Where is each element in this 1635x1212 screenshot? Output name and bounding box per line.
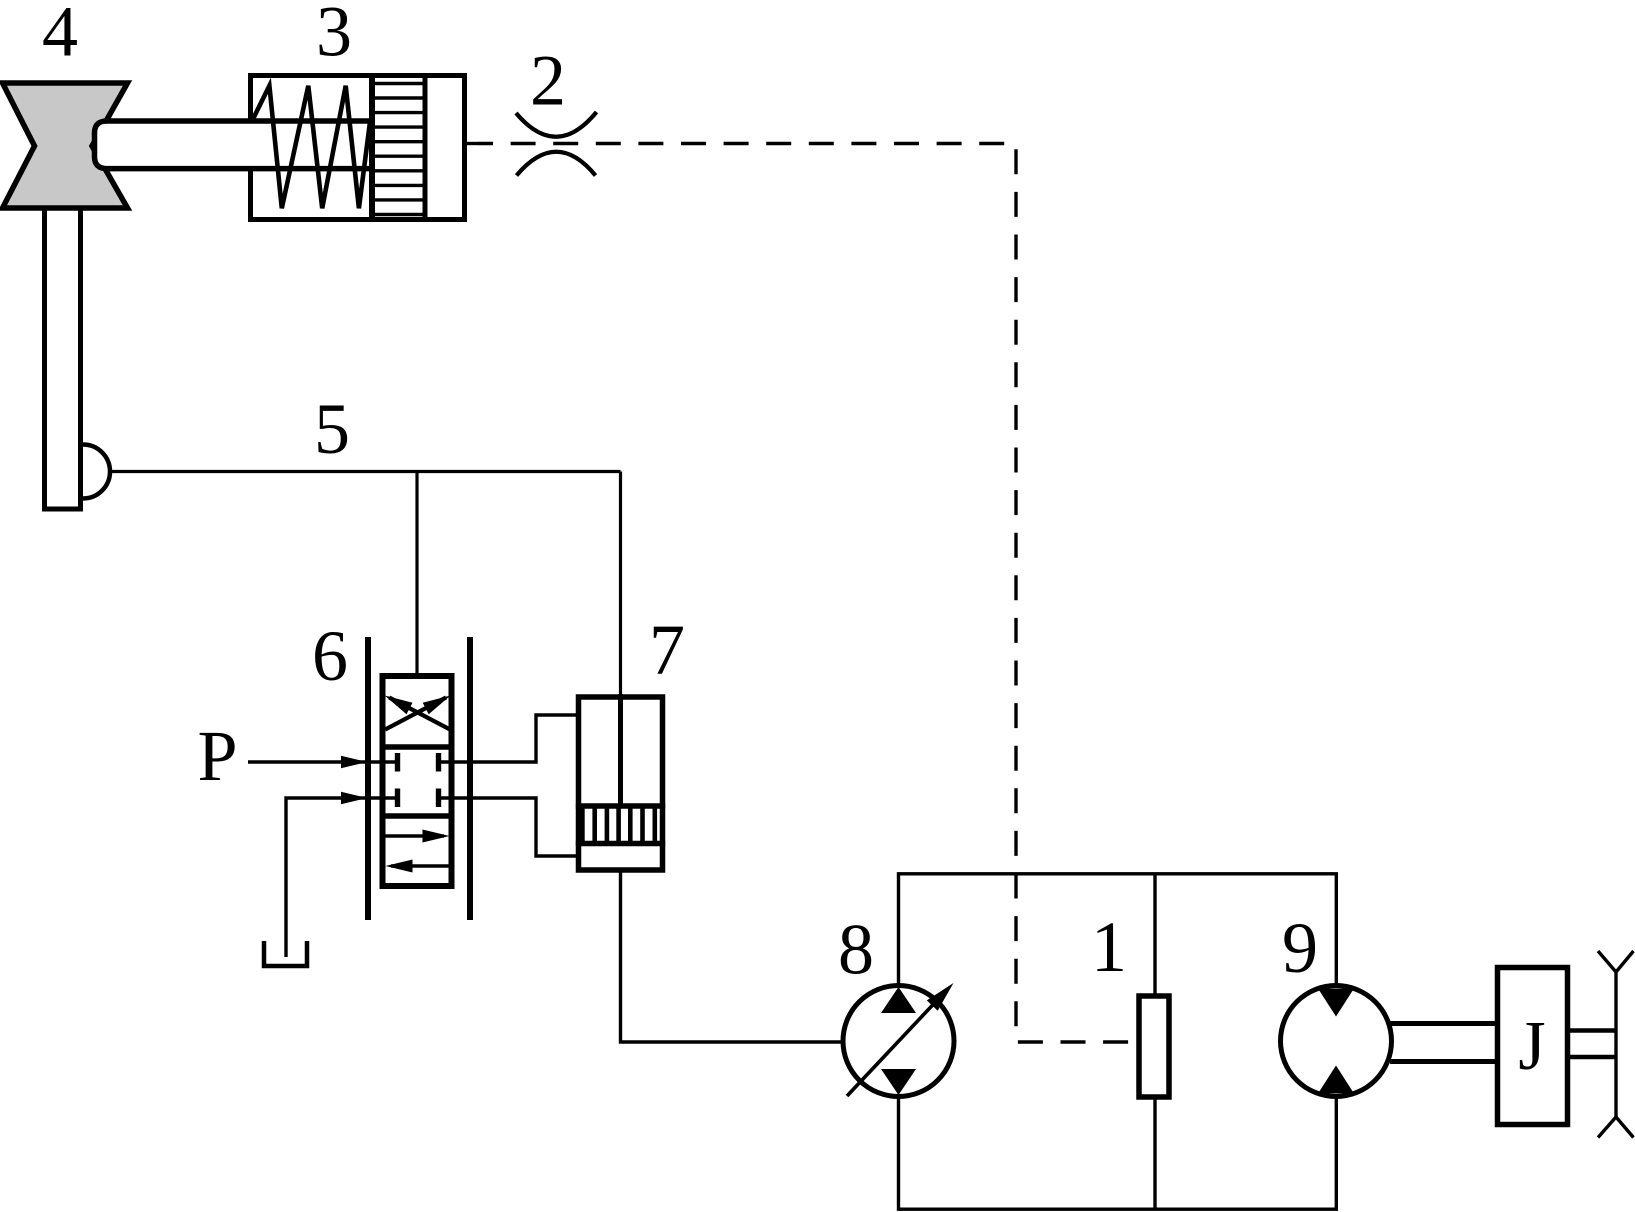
svg-text:J: J [1518,1008,1545,1085]
valve 6 crossed-arrow cell [385,696,451,730]
hydrostatic loop [899,874,1337,1209]
cylinder 7 lower rod / wire down to pump 8 [621,872,844,1042]
spring in 3 [252,86,370,209]
svg-text:4: 4 [42,0,78,72]
actuator 3 hatch (piston) [372,84,425,215]
tank return line with arrow [286,792,398,957]
motor 9 [1281,986,1392,1097]
svg-text:9: 9 [1282,908,1318,988]
cam 4 (grey) [3,83,128,208]
piston rod from 3 to cam 4 [95,121,373,169]
pivot follower semicircle on rod [83,445,110,499]
actuator 3 divider left (piston face) [369,76,375,220]
loop middle branch wire [1153,874,1156,1209]
valve 6 blocked-port bars (centre position) [398,753,439,807]
svg-text:5: 5 [314,389,350,469]
servo valve 6 right rail [467,637,473,920]
valve 6 flow arrows cell [386,830,450,873]
orifice 2 lower arc [517,152,596,176]
tank symbol [264,941,307,966]
shaft motor 9 to load J [1390,1024,1496,1062]
feedback link 5 (horizontal) [110,470,621,473]
wire valve B-port to cylinder bottom [439,798,579,856]
wire valve A-port to cylinder top [439,715,579,762]
svg-text:6: 6 [312,616,348,696]
follower rod of cam 4 [45,208,81,509]
actuator 3 divider right [423,76,428,220]
svg-text:P: P [197,716,237,796]
cylinder 7 rod (upper) [618,694,623,806]
cylinder 7 body [579,697,663,870]
load J body [1498,968,1568,1125]
wire: link 5 down to cylinder 7 rod [619,472,622,698]
svg-text:8: 8 [838,910,874,990]
cylinder 7 piston hatch band [576,806,665,844]
servo valve 6 body [383,676,452,886]
variable pump 8 [843,983,954,1097]
valve 6 divider lower [380,813,455,819]
svg-text:1: 1 [1091,907,1127,987]
valve 1 body [1139,996,1169,1097]
P supply line with arrow [248,756,398,768]
wire: link 5 branch down to valve 6 [415,472,418,680]
valve 6 divider upper [380,744,455,750]
solid stub out of actuator 3 [465,142,479,145]
anchor line with Y ends [1598,951,1634,1138]
svg-text:7: 7 [649,610,685,690]
load J output stub [1570,1031,1617,1058]
pilot dashed line from 2 to valve 1 region [478,144,1136,1043]
svg-text:2: 2 [530,41,566,121]
servo valve 6 left rail [365,637,371,920]
svg-text:3: 3 [316,0,352,72]
spring actuator 3: outer box [251,76,465,220]
orifice 2 upper arc [516,112,597,137]
